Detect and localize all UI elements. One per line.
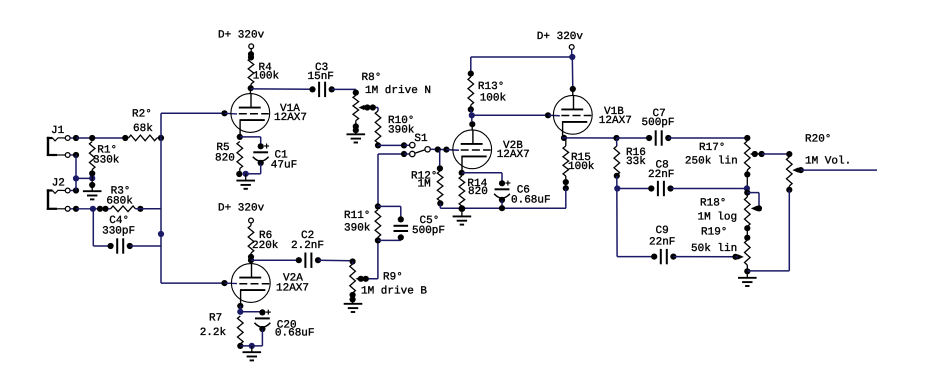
svg-text:390k: 390k [344,223,371,235]
svg-text:R18°: R18° [700,198,726,210]
svg-text:2.2nF: 2.2nF [291,240,324,252]
svg-text:820: 820 [468,186,488,198]
svg-text:820: 820 [215,153,235,165]
svg-text:47uF: 47uF [271,160,297,172]
svg-text:100k: 100k [253,71,280,83]
svg-text:1M drive B: 1M drive B [361,286,427,298]
svg-text:R7: R7 [209,313,222,325]
svg-text:R19°: R19° [701,226,727,238]
svg-text:R11°: R11° [344,210,370,222]
svg-text:1M: 1M [418,179,431,191]
svg-text:100k: 100k [568,161,595,173]
svg-text:R13°: R13° [478,81,504,93]
svg-text:330k: 330k [93,155,120,167]
svg-text:J2: J2 [52,178,65,190]
svg-text:500pF: 500pF [412,225,445,237]
svg-text:D+ 320v: D+ 320v [537,31,584,43]
svg-text:68k: 68k [133,123,153,135]
svg-text:J1: J1 [51,125,65,137]
svg-text:12AX7: 12AX7 [276,282,309,294]
svg-text:390k: 390k [388,124,415,136]
svg-text:R20°: R20° [805,134,831,146]
svg-text:250k lin: 250k lin [685,155,738,167]
svg-text:0.68uF: 0.68uF [511,195,551,207]
svg-text:22nF: 22nF [648,169,674,181]
svg-text:C9: C9 [656,225,669,237]
svg-text:500pF: 500pF [642,117,675,129]
svg-text:R8°: R8° [362,72,382,84]
svg-text:12AX7: 12AX7 [599,115,632,127]
svg-text:2.2k: 2.2k [200,327,227,339]
svg-text:100k: 100k [480,92,507,104]
svg-text:0.68uF: 0.68uF [275,328,315,340]
svg-text:22nF: 22nF [649,236,675,248]
svg-text:1M Vol.: 1M Vol. [805,156,851,168]
svg-text:R2°: R2° [132,109,152,121]
svg-text:R17°: R17° [699,142,725,154]
svg-text:12AX7: 12AX7 [274,112,307,124]
svg-text:330pF: 330pF [102,225,135,237]
svg-text:1M log: 1M log [698,211,738,223]
svg-text:D+ 320v: D+ 320v [218,30,265,42]
svg-text:12AX7: 12AX7 [497,149,530,161]
svg-text:S1: S1 [414,133,428,145]
svg-text:220k: 220k [252,240,279,252]
svg-text:15nF: 15nF [308,71,334,83]
svg-text:1M drive N: 1M drive N [365,85,431,97]
svg-text:33k: 33k [626,156,646,168]
svg-text:680k: 680k [106,195,133,207]
svg-text:D+ 320v: D+ 320v [218,203,265,215]
svg-text:R9°: R9° [383,272,403,284]
svg-text:50k lin: 50k lin [691,243,737,255]
